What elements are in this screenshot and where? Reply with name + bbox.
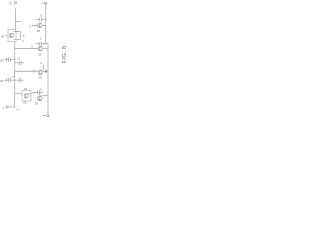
svg-text:55: 55 xyxy=(39,76,43,80)
output terminal circle xyxy=(47,115,49,117)
wire leader 82 xyxy=(5,59,7,61)
capacitor C5 xyxy=(7,78,15,82)
svg-text:2: 2 xyxy=(29,25,31,29)
dashed enclosure box bottom xyxy=(22,91,31,102)
transistor Q4 xyxy=(38,70,43,75)
wire stub above Q4 xyxy=(42,65,44,70)
wire join vertical xyxy=(19,32,21,40)
transistor Q5 xyxy=(24,94,28,98)
wire Q2 collector xyxy=(14,31,21,33)
wire terminal lead left xyxy=(42,2,45,4)
wire left column bus xyxy=(14,42,16,107)
bottom terminal circle xyxy=(6,106,8,108)
wire leader 83 xyxy=(5,79,7,81)
wire base lead stage4 xyxy=(15,92,22,94)
capacitor C4 right of bus xyxy=(15,61,24,65)
transistor Q6 xyxy=(37,96,42,101)
svg-text:82: 82 xyxy=(0,79,4,83)
svg-text:55: 55 xyxy=(37,29,41,33)
svg-text:5: 5 xyxy=(40,13,42,17)
junction row1-bus xyxy=(14,59,15,60)
wire right bus xyxy=(47,44,49,115)
input terminal circle xyxy=(14,1,16,3)
wire input down xyxy=(15,9,17,30)
transistor Q3 xyxy=(38,46,43,51)
svg-text:2: 2 xyxy=(31,45,33,49)
node 2 top-right terminal xyxy=(45,2,47,4)
capacitor C3 xyxy=(7,58,15,62)
svg-text:5: 5 xyxy=(23,34,25,38)
wire main vertical top bus xyxy=(45,4,47,44)
capacitor C7 xyxy=(34,90,43,94)
svg-text:5: 5 xyxy=(40,36,42,40)
wire leader 81 xyxy=(5,35,7,37)
transistor Q2 xyxy=(9,33,14,38)
wire long base lead stage2 xyxy=(15,47,38,49)
svg-text:6: 6 xyxy=(40,87,42,91)
svg-text:81: 81 xyxy=(1,34,5,38)
wire base lead stage3 xyxy=(15,70,38,72)
wire bottom-left to terminal xyxy=(8,107,18,109)
capacitor C2 xyxy=(36,42,48,46)
svg-text:55: 55 xyxy=(23,101,27,105)
wire output dash xyxy=(43,114,46,116)
svg-text:2: 2 xyxy=(22,39,24,43)
wire branch tick xyxy=(16,21,21,23)
svg-text:5: 5 xyxy=(40,61,42,65)
svg-text:2l: 2l xyxy=(17,57,20,61)
wire Q5 out xyxy=(29,92,35,94)
svg-text:FIG. 8: FIG. 8 xyxy=(62,46,68,64)
transistor Q1 xyxy=(38,23,43,28)
svg-text:1: 1 xyxy=(10,1,12,5)
wire Q2 emitter xyxy=(14,39,21,41)
svg-text:82: 82 xyxy=(0,59,4,63)
dashed enclosure box left xyxy=(8,30,16,42)
svg-text:1: 1 xyxy=(2,106,4,110)
capacitor C1 xyxy=(36,18,46,22)
svg-text:55: 55 xyxy=(38,53,42,57)
capacitor C6 right of bus xyxy=(12,76,24,82)
svg-text:55: 55 xyxy=(35,102,39,106)
